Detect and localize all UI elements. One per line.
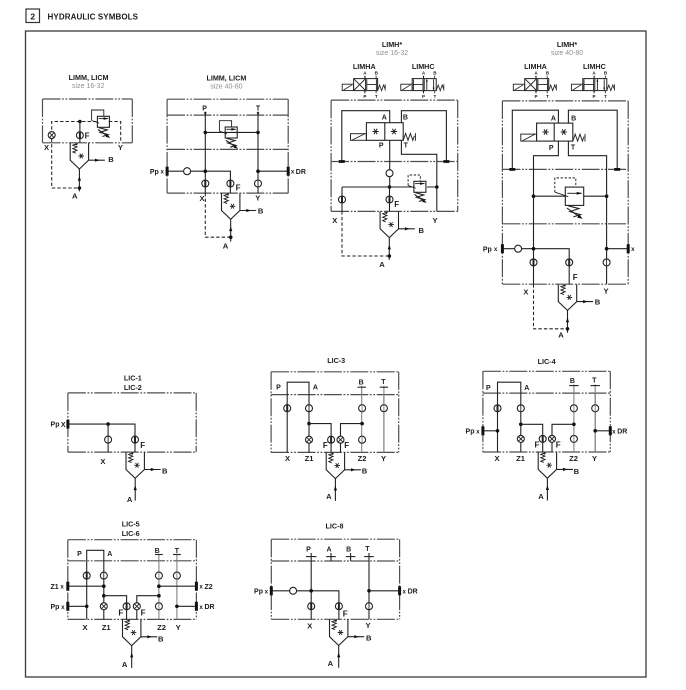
- svg-text:LIC-2: LIC-2: [124, 383, 142, 392]
- svg-text:Z1: Z1: [516, 454, 526, 463]
- svg-text:B: B: [362, 466, 368, 475]
- svg-text:Pp: Pp: [50, 604, 59, 611]
- svg-text:X: X: [494, 454, 499, 463]
- svg-text:Y: Y: [381, 454, 386, 463]
- svg-text:x: x: [612, 428, 616, 435]
- svg-text:F: F: [573, 273, 578, 282]
- poppet insert: [326, 452, 361, 501]
- svg-text:Z2: Z2: [205, 584, 213, 591]
- internal section line lower: [502, 223, 628, 225]
- svg-text:B: B: [570, 378, 575, 385]
- junction node right: [435, 185, 439, 189]
- solenoid valve LIMHC: [571, 70, 614, 99]
- svg-text:x: x: [60, 584, 64, 591]
- orifice Z1 lower: [100, 603, 107, 610]
- svg-text:P: P: [77, 551, 82, 558]
- svg-text:T: T: [365, 546, 370, 553]
- DR port line: [258, 170, 288, 172]
- svg-text:LIC-3: LIC-3: [327, 356, 345, 365]
- svg-text:P: P: [276, 384, 281, 391]
- x port line right: [607, 248, 629, 250]
- branch Z1 to F left: [521, 424, 543, 452]
- svg-text:x: x: [494, 246, 498, 253]
- orifice Z1 lower: [517, 435, 524, 442]
- poppet insert: [558, 284, 593, 333]
- B line blocked: [158, 554, 160, 620]
- orifice F right: [337, 436, 344, 443]
- svg-text:LIMH*: LIMH*: [557, 40, 578, 49]
- svg-text:LIC-5: LIC-5: [122, 519, 140, 528]
- plug at x port: [627, 244, 630, 253]
- svg-text:A: A: [538, 492, 544, 501]
- svg-text:Y: Y: [176, 623, 181, 632]
- orifice Z2 lower: [570, 435, 577, 442]
- Pp port line: [271, 591, 339, 620]
- orifice on P line: [202, 180, 209, 187]
- internal header line: [271, 394, 399, 396]
- orifice F right: [549, 435, 556, 442]
- branch A to F left: [104, 596, 127, 620]
- orifice F: [132, 436, 139, 443]
- orifice on P line: [386, 170, 393, 177]
- svg-text:P: P: [306, 547, 311, 554]
- orifice on X line: [284, 405, 291, 412]
- T line blocked: [383, 386, 385, 453]
- svg-text:B: B: [155, 548, 160, 555]
- svg-text:LIC-6: LIC-6: [122, 529, 140, 538]
- orifice F right: [133, 603, 140, 610]
- Z1 line: [308, 395, 310, 453]
- junction node on A line: [566, 327, 570, 331]
- internal header line: [68, 560, 197, 562]
- relief valve cross line: [534, 195, 607, 197]
- manifold body outline: [68, 392, 196, 394]
- pilot valve body: [537, 123, 573, 141]
- poppet insert: [330, 619, 365, 668]
- plug B rail: [443, 160, 449, 163]
- pilot valve solenoid: [521, 134, 537, 141]
- branch Z2 to F right: [552, 424, 574, 452]
- X line: [286, 395, 288, 453]
- junction node on A line: [388, 254, 392, 258]
- orifice on X branch: [105, 436, 112, 443]
- orifice F left: [328, 436, 335, 443]
- junction node on A line: [78, 186, 82, 190]
- manifold body outline: [331, 99, 458, 101]
- svg-text:x: x: [476, 428, 480, 435]
- svg-text:B: B: [346, 547, 351, 554]
- rail A left: [512, 110, 558, 169]
- B line blocked: [573, 384, 575, 452]
- svg-text:A: A: [328, 659, 334, 668]
- svg-text:LIMM, LICM: LIMM, LICM: [69, 73, 109, 82]
- orifice F left: [123, 603, 130, 610]
- svg-text:DR: DR: [296, 169, 306, 176]
- svg-text:B: B: [108, 155, 114, 164]
- svg-text:Pp: Pp: [483, 246, 492, 253]
- orifice on X line: [530, 259, 537, 266]
- wire F branch vertical: [79, 122, 81, 143]
- branch Z1 to F left: [309, 424, 331, 453]
- svg-text:size 16-32: size 16-32: [72, 83, 104, 90]
- svg-text:x: x: [291, 169, 295, 176]
- poppet insert: [380, 211, 415, 260]
- svg-text:B: B: [258, 206, 264, 215]
- svg-text:A: A: [551, 116, 556, 123]
- internal section line: [331, 161, 458, 163]
- wire F to poppet: [389, 187, 391, 211]
- orifice on X line: [494, 405, 501, 412]
- svg-text:F: F: [343, 610, 348, 619]
- orifice on B line: [155, 572, 162, 579]
- pilot valve spring: [573, 134, 585, 142]
- svg-text:X: X: [285, 454, 290, 463]
- svg-text:X: X: [44, 143, 49, 152]
- svg-text:HYDRAULIC SYMBOLS: HYDRAULIC SYMBOLS: [48, 12, 139, 21]
- orifice on T line: [173, 572, 180, 579]
- manifold body outline: [167, 98, 288, 100]
- svg-text:B: B: [366, 633, 372, 642]
- P line: [310, 553, 312, 619]
- svg-text:X: X: [307, 622, 312, 631]
- A stub blocked: [330, 553, 332, 561]
- manifold body outline: [271, 371, 399, 373]
- orifice on X line: [83, 572, 90, 579]
- svg-text:A: A: [127, 495, 133, 504]
- Pp port line: [502, 249, 569, 285]
- plug A rail: [339, 160, 345, 163]
- svg-text:Y: Y: [366, 621, 371, 630]
- X line: [497, 393, 499, 452]
- svg-text:X: X: [100, 457, 105, 466]
- pilot valve body: [366, 123, 403, 141]
- dashed X line below box: [205, 193, 230, 237]
- svg-text:P: P: [202, 106, 207, 113]
- svg-text:P: P: [549, 145, 554, 152]
- dashed X line below box: [342, 211, 389, 256]
- pilot line dashed valve to Y: [109, 122, 121, 143]
- orifice F: [386, 196, 393, 203]
- orifice F: [76, 132, 83, 139]
- svg-text:2: 2: [30, 11, 35, 21]
- rail B right: [401, 111, 446, 162]
- svg-text:LIC-8: LIC-8: [326, 522, 344, 531]
- DR port line: [595, 430, 610, 432]
- relief valve RV: [92, 110, 111, 138]
- solenoid valve LIMHA: [342, 70, 385, 99]
- poppet insert: [126, 452, 161, 501]
- orifice on Z2 line: [570, 405, 577, 412]
- orifice on Pp line: [184, 168, 191, 175]
- junction node Z2: [360, 422, 364, 426]
- solenoid valve LIMHC: [401, 70, 444, 99]
- svg-text:Z2: Z2: [358, 454, 367, 463]
- B line blocked: [361, 386, 363, 453]
- X branch vertical: [341, 187, 343, 211]
- orifice B lower: [155, 603, 162, 610]
- svg-text:X: X: [199, 194, 204, 203]
- plug A rail: [509, 168, 515, 171]
- svg-text:Y: Y: [255, 194, 260, 203]
- junction node Z1: [519, 423, 523, 427]
- relief valve RV: [408, 175, 427, 203]
- Y line: [383, 395, 385, 453]
- svg-text:T: T: [175, 548, 180, 555]
- plug at Pp port: [66, 420, 69, 429]
- svg-text:Z1: Z1: [102, 623, 112, 632]
- svg-text:LIC-4: LIC-4: [538, 357, 556, 366]
- branch Z2 to F right: [341, 424, 363, 453]
- Z2 port line: [159, 585, 197, 587]
- orifice on A line: [100, 572, 107, 579]
- plug at Pp port: [166, 167, 169, 176]
- solenoid valve LIMHA: [513, 70, 556, 99]
- P-A bridge: [498, 382, 521, 393]
- svg-text:x: x: [199, 584, 203, 591]
- X line: [86, 561, 88, 620]
- svg-text:A: A: [326, 492, 332, 501]
- svg-text:DR: DR: [408, 588, 418, 595]
- Pp port line: [68, 424, 135, 452]
- svg-text:x: x: [631, 246, 635, 253]
- manifold body outline: [43, 98, 133, 100]
- svg-text:size 16-32: size 16-32: [376, 50, 408, 57]
- svg-text:P: P: [486, 385, 491, 392]
- junction node Z2: [572, 423, 576, 427]
- junction node on pilot line: [78, 120, 82, 124]
- svg-text:B: B: [403, 115, 408, 122]
- svg-text:Z2: Z2: [569, 454, 578, 463]
- svg-text:A: A: [122, 660, 128, 669]
- internal section line upper: [502, 168, 628, 170]
- P-A bridge: [87, 550, 104, 561]
- svg-text:F: F: [85, 131, 90, 140]
- svg-text:Y: Y: [592, 454, 597, 463]
- svg-text:A: A: [524, 385, 529, 392]
- orifice F: [335, 603, 342, 610]
- P line: [204, 112, 206, 194]
- svg-text:T: T: [592, 378, 597, 385]
- svg-text:X: X: [523, 288, 528, 297]
- svg-text:Z1: Z1: [305, 454, 315, 463]
- X branch vertical: [107, 424, 109, 452]
- internal section line upper: [167, 114, 288, 116]
- junction node T/DR: [256, 169, 260, 173]
- svg-text:Z2: Z2: [157, 623, 166, 632]
- junction node on A line: [229, 235, 233, 239]
- svg-text:B: B: [162, 466, 168, 475]
- pilot valve spring: [403, 133, 415, 141]
- svg-text:size 40-80: size 40-80: [210, 84, 242, 91]
- svg-text:A: A: [72, 192, 78, 201]
- T line blocked: [176, 554, 178, 620]
- P line down: [389, 140, 391, 187]
- svg-text:Pp: Pp: [51, 422, 60, 429]
- svg-text:T: T: [381, 379, 386, 386]
- svg-text:F: F: [140, 441, 145, 450]
- junction node P: [388, 185, 392, 189]
- orifice Z2 lower: [359, 436, 366, 443]
- svg-text:B: B: [359, 379, 364, 386]
- poppet insert: [123, 619, 158, 668]
- cross line to relief valve: [342, 186, 437, 188]
- svg-text:B: B: [571, 116, 576, 123]
- svg-text:x: x: [402, 588, 406, 595]
- svg-text:F: F: [323, 441, 328, 450]
- svg-text:B: B: [419, 226, 425, 235]
- relief valve cross line: [205, 131, 258, 133]
- junction node Pp: [532, 247, 536, 251]
- manifold body outline: [483, 370, 610, 372]
- svg-text:F: F: [344, 441, 349, 450]
- orifice F: [227, 180, 234, 187]
- svg-text:T: T: [571, 145, 576, 152]
- junction node P/Pp: [204, 169, 208, 173]
- orifice on Pp line: [290, 587, 297, 594]
- Pp port line: [483, 430, 498, 432]
- right vertical to Y: [606, 196, 608, 284]
- manifold body outline: [502, 100, 628, 102]
- svg-text:A: A: [382, 115, 387, 122]
- manifold body outline: [271, 538, 399, 540]
- orifice on Z1 line: [517, 405, 524, 412]
- page header: section number box: [26, 9, 40, 23]
- branch B to F right: [137, 596, 159, 620]
- svg-text:A: A: [326, 547, 331, 554]
- poppet insert: [538, 452, 573, 501]
- pilot line dashed from X up and across to valve: [52, 122, 97, 136]
- svg-text:A: A: [107, 551, 112, 558]
- plug at Pp port: [501, 244, 504, 253]
- svg-text:Pp: Pp: [466, 428, 475, 435]
- Pp port line: [167, 171, 230, 193]
- svg-text:x: x: [265, 588, 269, 595]
- svg-text:Pp: Pp: [254, 588, 263, 595]
- svg-text:X: X: [332, 216, 337, 225]
- svg-text:A: A: [313, 384, 318, 391]
- T line down-right: [568, 141, 606, 196]
- svg-text:Y: Y: [118, 143, 123, 152]
- orifice on X line: [308, 603, 315, 610]
- P line down-left: [534, 141, 559, 196]
- dashed X line below box: [52, 139, 80, 188]
- A/Z1 line: [103, 561, 105, 620]
- orifice on Y line: [603, 259, 610, 266]
- internal header line: [483, 392, 610, 394]
- svg-text:Z1: Z1: [51, 584, 59, 591]
- svg-text:P: P: [379, 142, 384, 149]
- junction node A branch: [102, 594, 106, 598]
- svg-text:x: x: [199, 604, 203, 611]
- svg-text:F: F: [394, 200, 399, 209]
- svg-text:T: T: [404, 143, 409, 150]
- orifice F: [566, 259, 573, 266]
- manifold body outline: [68, 539, 197, 541]
- rail B right: [568, 110, 617, 169]
- orifice on Z1 line: [306, 405, 313, 412]
- T line: [257, 112, 259, 194]
- svg-text:F: F: [141, 608, 146, 617]
- svg-text:F: F: [556, 441, 561, 450]
- junction node x: [605, 247, 609, 251]
- svg-text:Pp: Pp: [150, 169, 159, 176]
- relief valve RV: [219, 121, 238, 149]
- svg-text:Y: Y: [603, 287, 608, 296]
- svg-text:X: X: [82, 623, 87, 632]
- pilot valve solenoid: [351, 134, 367, 141]
- svg-text:x: x: [160, 169, 164, 176]
- junction node Z1: [307, 422, 311, 426]
- DR port line: [369, 590, 400, 592]
- svg-text:size 40-80: size 40-80: [551, 50, 583, 57]
- orifice on T line: [255, 180, 262, 187]
- orifice on Pp line: [515, 245, 522, 252]
- orifice Z1 lower: [306, 436, 313, 443]
- svg-text:A: A: [223, 242, 229, 251]
- svg-text:B: B: [574, 467, 580, 476]
- svg-text:x: x: [61, 604, 65, 611]
- orifice on Y line: [380, 405, 387, 412]
- Y line: [594, 393, 596, 452]
- svg-text:A: A: [558, 330, 564, 339]
- T line: [368, 553, 370, 619]
- plug at DR port: [287, 167, 290, 176]
- orifice on Y line: [366, 603, 373, 610]
- orifice on Z2 line: [359, 405, 366, 412]
- svg-text:LIMM, LICM: LIMM, LICM: [206, 73, 246, 82]
- svg-text:DR: DR: [205, 604, 215, 611]
- T line to right vertical: [401, 140, 436, 211]
- DR port line: [177, 605, 197, 607]
- svg-text:LIC-1: LIC-1: [124, 374, 142, 383]
- Pp port line: [68, 605, 87, 607]
- internal section line lower: [167, 148, 288, 150]
- left vertical to X: [533, 196, 535, 284]
- svg-text:F: F: [236, 183, 241, 192]
- svg-text:B: B: [595, 297, 601, 306]
- orifice on Y line: [592, 405, 599, 412]
- P-A bridge: [287, 382, 309, 394]
- junction node B branch: [157, 594, 161, 598]
- svg-text:F: F: [535, 441, 540, 450]
- poppet insert: [70, 143, 105, 192]
- B stub blocked: [350, 553, 352, 561]
- internal header line: [271, 560, 399, 562]
- plug B rail: [614, 168, 620, 171]
- svg-text:F: F: [118, 608, 123, 617]
- svg-text:X: X: [61, 422, 66, 429]
- orifice on X pilot line: [48, 132, 55, 139]
- svg-text:DR: DR: [617, 428, 627, 435]
- orifice F left: [539, 435, 546, 442]
- dashed X line below box: [534, 284, 568, 329]
- T line blocked: [594, 384, 596, 452]
- rail A left: [342, 111, 390, 162]
- svg-text:Y: Y: [432, 216, 437, 225]
- svg-text:B: B: [158, 634, 164, 643]
- Z1 line: [520, 393, 522, 452]
- svg-text:T: T: [256, 106, 261, 113]
- relief valve RV: [555, 178, 584, 219]
- orifice on X branch: [339, 196, 346, 203]
- Z1 port line: [68, 585, 104, 587]
- junction node: [106, 422, 110, 426]
- poppet insert: [222, 193, 257, 242]
- svg-text:A: A: [379, 260, 385, 269]
- junction node P: [309, 589, 313, 593]
- svg-text:LIMH*: LIMH*: [382, 40, 403, 49]
